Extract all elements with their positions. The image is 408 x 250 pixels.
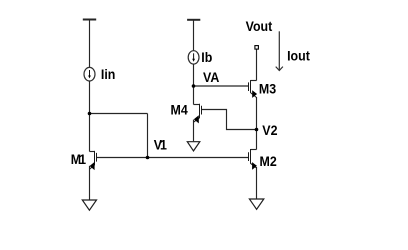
- transistor M2 drain bend: [251, 149, 257, 151]
- transistor M4 drain bend: [194, 104, 200, 106]
- transistor M3 gate bar: [248, 82, 250, 91]
- transistor M1 drain bend: [90, 151, 95, 153]
- node junction dot V1: [146, 156, 150, 160]
- current source Iin: [84, 67, 95, 81]
- svg-text:Ib: Ib: [201, 49, 212, 65]
- node junction dot VA: [192, 84, 196, 88]
- transistor M1 source arrow: [90, 162, 95, 170]
- transistor M4 source arrow: [194, 115, 199, 123]
- wire M2 source: [256, 167, 258, 199]
- transistor M4 channel bar: [199, 104, 201, 118]
- transistor M2 channel bar: [250, 149, 252, 164]
- svg-text:Iin: Iin: [101, 66, 115, 82]
- svg-text:M1: M1: [71, 151, 86, 167]
- transistor M4 source lead: [194, 118, 200, 122]
- transistor M1 channel bar: [94, 151, 96, 165]
- ground below M1: [82, 200, 96, 210]
- wire node VA to M3 gate: [194, 85, 249, 87]
- vdd bar left: [83, 19, 96, 21]
- transistor M3 drain bend: [251, 80, 257, 82]
- transistor M2 gate bar: [248, 152, 250, 161]
- ground below M2: [249, 199, 263, 209]
- wire Vout drop: [256, 49, 258, 81]
- wire: [193, 20, 195, 51]
- wire node V1 line: [97, 157, 248, 159]
- svg-text:VA: VA: [203, 69, 220, 85]
- wire: [89, 20, 91, 68]
- wire M3 source to M2 drain: [256, 97, 258, 150]
- wire M4 gate jog: [202, 110, 257, 130]
- svg-text:V2: V2: [262, 122, 277, 138]
- transistor M3 source lead: [251, 93, 257, 98]
- ground below M4: [187, 142, 200, 151]
- wire M1 source: [89, 166, 91, 200]
- svg-text:Vout: Vout: [246, 18, 273, 34]
- transistor M1 source lead: [90, 165, 95, 169]
- terminal Vout square: [255, 46, 259, 50]
- svg-text:M4: M4: [171, 102, 189, 118]
- svg-text:V1: V1: [154, 137, 167, 153]
- wire: [89, 81, 91, 152]
- current source Ib: [188, 51, 199, 64]
- svg-text:Iout: Iout: [287, 48, 310, 64]
- transistor M2 source lead: [251, 163, 257, 168]
- svg-text:M3: M3: [259, 81, 276, 97]
- vdd bar middle: [187, 19, 200, 21]
- transistor M3 channel bar: [250, 80, 252, 93]
- transistor M1 gate bar: [96, 153, 98, 162]
- transistor M4 gate bar: [201, 106, 203, 115]
- node junction dot left: [88, 112, 92, 116]
- transistor M3 source arrow: [252, 90, 257, 98]
- svg-text:M2: M2: [260, 153, 277, 169]
- transistor M2 source arrow: [252, 162, 257, 170]
- node junction dot V2: [255, 128, 259, 132]
- wire M4 source: [193, 120, 195, 142]
- current source Iin arrow: [88, 70, 91, 78]
- Iout arrow: [276, 31, 283, 70]
- wire: [193, 64, 195, 104]
- current source Ib arrow: [192, 53, 195, 61]
- wire: [147, 114, 149, 158]
- wire: [90, 113, 148, 115]
